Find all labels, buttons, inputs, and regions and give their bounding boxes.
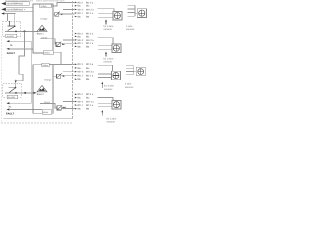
terminal labels G2 column 2 [86,32,94,48]
net flag IO1 [1,2,29,6]
svg-text:sensors: sensors [104,61,113,64]
net flag IO2 [1,8,33,12]
relay K2 label ALARM [7,95,18,99]
svg-text:WH 4: WH 4 [78,100,84,103]
svg-text:Orange: Orange [44,79,52,82]
svg-text:WH 4 a: WH 4 a [86,100,94,103]
note text M5 [126,25,135,31]
svg-text:Orange: Orange [40,18,48,21]
inline connector CN4 [57,105,66,110]
blower B2 top terminal label Yellow [42,63,50,67]
junction dot K1 [24,30,26,32]
svg-text:ALARM: ALARM [7,35,14,38]
svg-text:Blow 2: Blow 2 [37,93,45,96]
terminal arrows G3 [75,64,77,81]
note text M3 [104,85,115,91]
svg-text:RD 1 a: RD 1 a [86,42,94,45]
svg-text:Blk: Blk [78,78,82,81]
terminal arrows G4 [75,94,77,110]
blower unit box B1 [33,4,53,53]
relay K1 contact bar [8,25,15,27]
svg-text:sensors: sensors [104,88,113,91]
sensor M4 3-wire [98,97,122,109]
relay K1 label ALARM [6,34,17,38]
dashed boundary bottom [1,122,72,124]
terminal labels G4 column 1 [78,93,84,110]
note arrow M1 [105,19,107,24]
wire CN2 to terminal [60,43,74,45]
sensor M6 4-wire [136,67,145,76]
svg-text:RD 1: RD 1 [78,74,84,77]
sensor M3 3-wire [98,65,121,80]
svg-text:Yellow: Yellow [40,5,47,8]
svg-text:RD 2: RD 2 [78,1,84,4]
svg-text:Blk: Blk [86,45,90,48]
svg-text:WH 2: WH 2 [78,8,84,11]
note text M2 [104,58,115,64]
wire G2 row3 [63,39,75,41]
svg-text:RD 1 a: RD 1 a [86,74,94,77]
svg-text:RD 2 a: RD 2 a [86,1,94,4]
note text M1 [104,25,115,31]
svg-text:Blk: Blk [78,15,82,18]
wire G4 row3 [63,101,75,103]
junction dot K2 inner [15,92,17,94]
svg-text:RD 4 a: RD 4 a [86,93,94,96]
svg-text:Blu: Blu [78,67,82,70]
arrow into blower 2 [34,92,37,94]
terminal labels G3 column 2 [86,63,94,81]
relay K2 contact feed wire [8,83,15,87]
wire G1 row3 [63,8,75,10]
relay K2 common wire to blower 2 [5,92,34,94]
dashed boundary left [0,36,2,123]
junction dot K2 [24,92,26,94]
sensor M5 4-wire [137,9,146,18]
svg-text:Yellow: Yellow [42,64,48,67]
svg-text:ALARM: ALARM [8,96,15,99]
sensor M1 3-wire [98,9,123,20]
svg-text:Blk: Blk [86,78,90,81]
svg-text:WH 2 a: WH 2 a [86,8,94,11]
terminal labels G1 column 2 [86,1,94,18]
sensor M6 4-wire bracket [126,66,136,75]
svg-text:WH 3 a: WH 3 a [86,71,94,74]
wire Bk upper [6,40,31,47]
common return wire bottom [4,118,73,120]
relay K1 contact feed wire [9,21,14,26]
wire B1 bottom label to G3 feeder [53,52,61,64]
wire CN1 to terminal [59,13,75,15]
svg-text:WH 2 a: WH 2 a [86,39,94,42]
wire FAULT lower [6,109,42,116]
relay K1 switch blade [8,26,15,30]
net flag IO3 arrow [1,12,4,14]
svg-text:Blk: Blk [86,108,90,111]
dashed unit boundary vertical [72,1,74,119]
svg-text:sensors: sensors [125,86,134,89]
relay K2 dashed enclosure [3,83,22,97]
wire G3 row3 [63,71,75,73]
svg-text:Blk: Blk [78,108,82,111]
blower B1 green wire [40,39,56,45]
svg-text:sensors: sensors [104,28,113,31]
svg-text:Blu: Blu [86,97,90,100]
svg-text:Blk: Blk [78,45,82,48]
wire flag drop B [14,14,16,26]
blower B1 fan triangle [37,25,47,31]
svg-text:Blow 1: Blow 1 [37,33,45,36]
svg-text:RD 1: RD 1 [78,42,84,45]
sensor M2 3-wire [98,38,122,53]
contact dot K2 [15,87,17,89]
svg-text:Blu: Blu [78,35,82,38]
wire Bk lower [6,102,31,108]
wire B2 top label to terminal row 1 [49,64,74,66]
svg-text:FAULT: FAULT [7,52,16,55]
svg-text:RD 1 a: RD 1 a [86,12,94,15]
svg-text:Blu: Blu [78,5,82,8]
relay K1 common wire to blower 1 [5,30,38,32]
svg-text:Motor: Motor [45,52,51,55]
terminal arrows G2 [75,33,77,48]
contact dot K1 [14,25,16,27]
svg-text:Blu: Blu [78,97,82,100]
wire CN3 to terminal [61,75,75,77]
blower B2 fan triangle [37,86,47,92]
note arrow M2 [105,52,107,57]
wire CN4 to terminal [61,107,74,109]
svg-text:RD 3 a: RD 3 a [86,63,94,66]
note arrow M3 [101,82,103,88]
blower B1 top terminal label Yellow [40,4,52,8]
blower B1 bottom terminal label [44,50,53,55]
svg-text:Bk: Bk [10,44,14,47]
terminal labels G4 column 2 [86,93,94,110]
svg-text:RD 2 a: RD 2 a [86,32,94,35]
svg-text:Blu: Blu [86,67,90,70]
terminal labels G3 column 1 [78,63,84,81]
wire IO3 [4,13,16,15]
svg-text:RD 1: RD 1 [78,104,84,107]
wire FAULT upper [6,48,33,55]
blower unit box B2 [33,65,53,113]
svg-text:WH 3: WH 3 [78,71,84,74]
svg-text:FAULT: FAULT [6,113,15,116]
svg-text:I/O INTERFACE +: I/O INTERFACE + [7,9,26,12]
svg-text:RD 4: RD 4 [78,93,84,96]
junction dot K1 inner [15,31,17,33]
relay K2 switch blade [8,88,15,94]
wire relay K2 feed from K1 junction [16,31,25,80]
note text M4 [107,117,118,123]
note text M6 [125,83,134,89]
inline connector CN1 [53,12,64,17]
blower B2 green wire [40,104,57,109]
svg-text:Motor: Motor [43,111,49,114]
sensor M5 4-wire bracket [128,5,138,16]
svg-text:I/O INTERFACE: I/O INTERFACE [7,3,24,6]
svg-text:Blu: Blu [86,35,90,38]
svg-text:RD 2: RD 2 [78,32,84,35]
arrow into relay K2 [15,80,17,83]
note arrow M4 [101,110,103,115]
svg-text:sensors: sensors [107,121,116,124]
svg-text:sensors: sensors [126,28,135,31]
terminal labels G1 column 1 [78,1,84,18]
inline connector CN2 [56,42,65,47]
terminal arrows G1 [75,2,77,18]
blower B2 bottom terminal label [42,110,52,115]
svg-text:Blu: Blu [86,5,90,8]
svg-text:RD 3: RD 3 [78,63,84,66]
svg-text:Blk: Blk [86,15,90,18]
title text row [5,0,65,3]
svg-text:RD 1: RD 1 [78,12,84,15]
wire flag drop A [6,14,8,22]
svg-text:Bk: Bk [9,106,13,109]
terminal labels G2 column 1 [78,32,84,48]
wire vertical bus V4 [30,41,32,103]
svg-text:WH 2: WH 2 [78,39,84,42]
wire B1 top label to terminal row 1 [51,2,75,6]
inline connector CN3 [53,73,66,78]
svg-text:RD 1 a: RD 1 a [86,104,94,107]
relay K1 dashed enclosure [3,21,21,36]
